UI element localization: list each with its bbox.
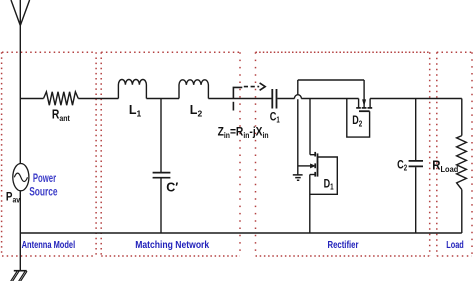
- svg-text:L1: L1: [129, 103, 142, 119]
- wire L2 to C1: [208, 98, 271, 100]
- D2 gate bar: [359, 110, 370, 112]
- svg-text:Pav: Pav: [6, 191, 21, 204]
- feedback wire top: [298, 79, 364, 81]
- ground: [293, 175, 303, 180]
- wire antenna feed vertical: [19, 26, 21, 164]
- wire main rail to D1 drain: [309, 99, 311, 155]
- wire node junction down to C': [160, 99, 162, 173]
- svg-text:Matching Network: Matching Network: [135, 240, 209, 251]
- svg-text:Power: Power: [33, 171, 56, 185]
- wire hop to D2: [301, 98, 358, 100]
- D2 source leg: [358, 99, 360, 108]
- chassis ground symbol: [14, 270, 27, 272]
- D1 drain leg: [310, 154, 315, 156]
- dashed region box: Antenna Model: [2, 52, 97, 256]
- D1 gate-source box: [310, 157, 338, 194]
- D2 body arrow: [363, 80, 365, 108]
- wire main top rail left segment: [20, 98, 43, 100]
- wire below rail to chassis: [19, 233, 21, 271]
- resistor Rant: [44, 92, 79, 105]
- wire gate line vertical (through hop, to ground): [297, 80, 299, 175]
- inductor L1: [118, 80, 146, 99]
- bottom rail wire: [20, 232, 462, 234]
- svg-text:C1: C1: [270, 109, 280, 124]
- D1 gate bar: [317, 153, 319, 176]
- D1 body arrow: [298, 165, 311, 167]
- wire Rant to L1: [78, 98, 118, 100]
- svg-text:Antenna Model: Antenna Model: [22, 240, 76, 251]
- svg-text:D1: D1: [324, 178, 334, 191]
- wire C' to bottom rail: [160, 178, 162, 233]
- wire C1 to hop: [277, 98, 294, 100]
- antenna: [11, 0, 30, 26]
- wire C2 top: [415, 99, 417, 161]
- dashed region box: Load: [437, 52, 472, 256]
- Zin dashed arrow: [244, 86, 259, 88]
- wire source bottom to ground rail: [19, 191, 21, 233]
- inductor L2: [179, 80, 208, 99]
- D2 drain leg: [368, 107, 373, 109]
- svg-text:RLoad: RLoad: [432, 158, 458, 175]
- capacitor C1: [272, 89, 276, 109]
- svg-text:L2: L2: [190, 103, 203, 119]
- wire L1 to node, node to L2: [146, 98, 179, 100]
- svg-text:Source: Source: [29, 185, 58, 199]
- svg-text:Rant: Rant: [52, 108, 70, 124]
- svg-text:Rectifier: Rectifier: [328, 240, 359, 251]
- wire hop over gate line: [294, 95, 301, 99]
- wire right edge bottom: [461, 190, 463, 233]
- D1 source leg: [314, 172, 316, 177]
- dashed region box: Matching Network: [101, 52, 240, 256]
- dashed region box: Rectifier: [256, 52, 430, 256]
- AC source V1 (power source): [13, 164, 29, 191]
- wire D2 to C2 node to load: [370, 98, 462, 100]
- svg-text:D2: D2: [352, 115, 362, 128]
- wire C2 bottom to rail: [415, 167, 417, 233]
- Zin measurement marker bracket: [233, 87, 242, 98]
- wire D1 source down to rail: [309, 175, 311, 234]
- svg-text:Zin=Rin-jXin: Zin=Rin-jXin: [218, 125, 269, 140]
- D2 gate-source box: [347, 99, 370, 138]
- svg-text:C2: C2: [397, 157, 407, 172]
- capacitor C2: [409, 161, 423, 167]
- svg-text:C′: C′: [166, 181, 178, 195]
- resistor RLoad: [457, 136, 467, 190]
- capacitor C': [153, 173, 171, 178]
- svg-text:Load: Load: [446, 240, 464, 251]
- wire right edge top: [461, 99, 463, 136]
